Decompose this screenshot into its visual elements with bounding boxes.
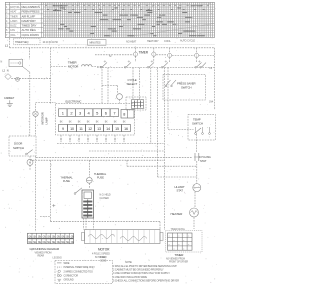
- svg-text:NG: NG: [47, 242, 50, 244]
- relay K1 block: [132, 100, 144, 109]
- svg-text:12: 12: [88, 127, 92, 131]
- svg-text:LEGEND: LEGEND: [53, 257, 63, 260]
- wire right drop: [213, 48, 215, 110]
- wire: [50, 48, 52, 104]
- wire: [157, 68, 159, 178]
- svg-text:x: x: [169, 236, 170, 238]
- wire L1 bus: [10, 47, 215, 49]
- notes: [113, 261, 179, 282]
- svg-text:10: 10: [70, 127, 74, 131]
- svg-text:2 CABINET MUST BE GROUNDED PRO: 2 CABINET MUST BE GROUNDED PROPERLY: [113, 269, 164, 272]
- svg-text:SWITCH: SWITCH: [13, 146, 24, 150]
- lamp DS1 interior: [33, 103, 56, 136]
- wire: [193, 217, 195, 229]
- svg-text:CLOSED: CLOSED: [100, 197, 110, 200]
- wire separator: [14, 44, 215, 46]
- svg-text:NO HEAT: NO HEAT: [126, 41, 137, 44]
- wire: [83, 218, 85, 230]
- svg-text:CONNECTOR: CONNECTOR: [64, 275, 79, 278]
- timer motor TM: [51, 60, 103, 68]
- svg-text:BUZZ: BUZZ: [10, 25, 17, 28]
- fuse F3: [16, 77, 20, 81]
- svg-text:CABINET: CABINET: [4, 97, 15, 100]
- svg-text:NG: NG: [61, 242, 64, 244]
- svg-text:11: 11: [79, 127, 83, 131]
- svg-text:L1: L1: [5, 43, 9, 47]
- wire code note: [100, 257, 107, 262]
- svg-text:NOTE:: NOTE:: [125, 261, 133, 264]
- svg-text:MOTOR: MOTOR: [10, 6, 19, 9]
- svg-text:x: x: [188, 236, 189, 238]
- svg-text:FRONT OF DRYER: FRONT OF DRYER: [169, 261, 188, 263]
- grounding strip A: [28, 233, 75, 238]
- svg-text:14: 14: [106, 127, 110, 131]
- wire: [126, 160, 128, 166]
- svg-text:8: 8: [123, 113, 125, 117]
- grounding strip B: [28, 239, 75, 244]
- svg-text:4 USE 600V INSULATION WIRE: 4 USE 600V INSULATION WIRE: [113, 276, 147, 279]
- motor windings strip: [82, 230, 164, 259]
- hi-limit thermostat: [175, 184, 201, 193]
- svg-text:PERM PRESS: PERM PRESS: [22, 10, 40, 14]
- svg-text:N: N: [7, 70, 9, 73]
- wire: [30, 159, 164, 161]
- svg-text:M: M: [29, 161, 31, 165]
- svg-text:WIRE: WIRE: [100, 257, 106, 259]
- cycle selector switch: [126, 78, 146, 110]
- svg-text:HEAT: HEAT: [10, 11, 17, 14]
- svg-text:COOL: COOL: [164, 40, 171, 43]
- svg-text:INTERIOR: INTERIOR: [41, 112, 45, 124]
- timer detail chart: [166, 228, 203, 264]
- switch contact: [76, 188, 83, 193]
- svg-text:NG: NG: [71, 242, 74, 244]
- svg-text:INTERNAL TIMER WIRE ONLY: INTERNAL TIMER WIRE ONLY: [64, 266, 96, 269]
- svg-text:HEAT DRY: HEAT DRY: [147, 40, 159, 43]
- connector wire labels: [60, 139, 126, 141]
- svg-text:GROUNDING DIAGRAM: GROUNDING DIAGRAM: [30, 247, 60, 251]
- wire: [29, 165, 31, 170]
- svg-text:NG: NG: [38, 242, 41, 244]
- temperature switch: [188, 115, 216, 141]
- svg-text:x: x: [183, 248, 184, 250]
- svg-text:THERMAL: THERMAL: [61, 176, 74, 180]
- junction: [52, 204, 55, 207]
- svg-text:COOL DOWN: COOL DOWN: [22, 33, 39, 37]
- wire: [29, 156, 31, 159]
- svg-text:TIMER: TIMER: [139, 51, 149, 55]
- svg-text:TIMED DRY: TIMED DRY: [22, 24, 37, 28]
- svg-text:x: x: [178, 244, 179, 246]
- svg-text:WIRE: WIRE: [64, 262, 70, 265]
- chart scale labels: [43, 40, 196, 46]
- lamp DS2: [117, 94, 123, 100]
- svg-text:x: x: [174, 240, 175, 242]
- wire: [159, 222, 161, 230]
- connector pin 8 block: [121, 110, 134, 119]
- wire: [196, 161, 198, 183]
- wire: [101, 66, 103, 103]
- svg-text:x: x: [183, 240, 184, 242]
- wire: [163, 68, 165, 231]
- svg-text:DAMP DRY: DAMP DRY: [22, 19, 37, 23]
- svg-text:NG: NG: [66, 242, 69, 244]
- svg-text:5 CHECK ALL CONNECTIONS BEFORE: 5 CHECK ALL CONNECTIONS BEFORE OPERATING…: [113, 279, 179, 282]
- wire: [139, 68, 141, 100]
- timer switch contacts: [97, 60, 214, 68]
- wire: [23, 67, 30, 73]
- legend: [53, 257, 113, 284]
- buzzer: [27, 159, 33, 165]
- chart footer box: [14, 38, 41, 45]
- connector P1 electronic control: [56, 100, 135, 135]
- svg-text:SWITCH: SWITCH: [181, 86, 192, 90]
- svg-text:x: x: [169, 244, 170, 246]
- wire: [107, 68, 109, 104]
- wire: [102, 85, 118, 87]
- svg-text:GROUND: GROUND: [64, 279, 74, 282]
- wire: [50, 221, 160, 223]
- svg-text:NG: NG: [57, 242, 60, 244]
- svg-text:TIMER DETAIL: TIMER DETAIL: [171, 228, 186, 231]
- svg-text:STAT: STAT: [177, 189, 184, 193]
- wire: [9, 38, 11, 48]
- wire: [88, 183, 90, 188]
- terminal block TB: [1, 59, 23, 66]
- wire: [11, 78, 50, 80]
- switch S1: [5, 74, 11, 80]
- svg-text:1 DISC ALL EL PWR TO DRYER BEF: 1 DISC ALL EL PWR TO DRYER BEFORE SERVIC…: [113, 265, 177, 268]
- wire: [195, 134, 197, 153]
- svg-text:AUTO CYCLE: AUTO CYCLE: [180, 40, 195, 43]
- svg-text:2 WIRES CONNECTED TOG: 2 WIRES CONNECTED TOG: [64, 270, 94, 273]
- svg-text:NG: NG: [52, 242, 55, 244]
- wire: [29, 72, 31, 136]
- wire: [119, 100, 121, 104]
- svg-text:LAMP: LAMP: [44, 117, 48, 124]
- svg-text:9: 9: [62, 127, 64, 131]
- timer sequence chart: [5, 2, 214, 37]
- svg-text:3 USE COPPER CONDUCTORS ONLY F: 3 USE COPPER CONDUCTORS ONLY FOR SUPPLY: [113, 272, 170, 275]
- svg-text:AUTO REG: AUTO REG: [22, 28, 37, 32]
- thermal fuse F2: [94, 172, 107, 180]
- svg-text:THERMAL: THERMAL: [94, 172, 107, 176]
- svg-text:HEATER: HEATER: [171, 212, 184, 216]
- wire: [57, 143, 164, 145]
- svg-text:10 20 30 40 50: 10 20 30 40 50: [43, 41, 59, 44]
- wire: [35, 156, 37, 232]
- wire: [117, 86, 119, 94]
- svg-text:15: 15: [115, 127, 119, 131]
- svg-text:STAT: STAT: [200, 159, 207, 163]
- wire: [167, 68, 169, 130]
- connector pins 9-16: [59, 125, 131, 132]
- svg-text:x: x: [174, 248, 175, 250]
- wire: [29, 48, 31, 60]
- wire: [132, 68, 134, 100]
- svg-text:16: 16: [124, 127, 128, 131]
- svg-text:TIMER: TIMER: [175, 253, 185, 257]
- wire: [40, 216, 50, 218]
- svg-text:AIR FLUFF: AIR FLUFF: [22, 14, 36, 18]
- grounding diagram label: [30, 247, 60, 258]
- svg-text:TIMER SEQ: TIMER SEQ: [15, 40, 28, 44]
- wire: [168, 129, 194, 131]
- wire: [85, 218, 87, 230]
- wire: [89, 150, 164, 152]
- svg-text:13: 13: [97, 127, 101, 131]
- wire: [93, 218, 95, 230]
- wire: [194, 192, 196, 208]
- svg-text:FUSE: FUSE: [97, 176, 104, 180]
- svg-text:FUSE: FUSE: [63, 179, 70, 183]
- svg-text:x: x: [178, 236, 179, 238]
- svg-text:REAR: REAR: [38, 255, 45, 258]
- wire: [127, 165, 196, 167]
- wire: [60, 135, 62, 144]
- label: [100, 194, 111, 200]
- heater element: [171, 208, 199, 217]
- scan noise (decorative): [1, 1, 218, 283]
- svg-text:FAN: FAN: [10, 29, 15, 32]
- svg-text:ELECTRONIC: ELECTRONIC: [66, 100, 82, 104]
- wire: [49, 160, 51, 222]
- wire: [88, 160, 90, 177]
- door switch: [9, 136, 36, 156]
- wire: [150, 68, 152, 144]
- press saver switch: [163, 75, 206, 101]
- timer terminals: [95, 48, 214, 62]
- svg-text:LAMP: LAMP: [10, 20, 17, 23]
- svg-text:MOTOR: MOTOR: [68, 64, 78, 68]
- svg-text:MOTOR: MOTOR: [98, 248, 110, 252]
- svg-text:SWITCH: SWITCH: [192, 121, 203, 125]
- svg-text:x: x: [188, 244, 189, 246]
- wire: [158, 176, 196, 178]
- svg-text:NG: NG: [29, 242, 32, 244]
- motor switch: [82, 190, 94, 218]
- thermal fuse F1: [61, 176, 93, 184]
- connector pin labels: [60, 121, 126, 123]
- svg-text:NG: NG: [33, 242, 36, 244]
- svg-text:SELECT: SELECT: [127, 82, 138, 86]
- svg-text:MINUTES: MINUTES: [90, 41, 101, 45]
- svg-text:REG FABRICS: REG FABRICS: [22, 5, 41, 9]
- svg-text:NG: NG: [43, 242, 46, 244]
- svg-text:CODE: CODE: [100, 260, 107, 262]
- cabinet ground: [4, 97, 15, 107]
- connector pins 1-7: [59, 109, 119, 117]
- svg-text:AS VIEWED FROM: AS VIEWED FROM: [166, 258, 185, 261]
- wire: [36, 156, 193, 158]
- svg-text:TIMER: TIMER: [10, 15, 18, 18]
- cycling thermostat: [194, 153, 211, 163]
